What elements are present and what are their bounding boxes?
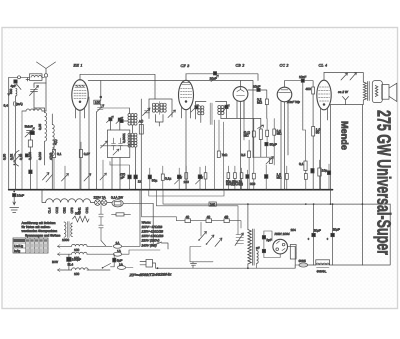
svg-text:GW5: GW5 [299,259,306,263]
svg-text:nF: nF [256,246,260,250]
wire barretter to switch [123,203,153,245]
blob pair top [109,118,112,121]
wire y118.5 [221,118,261,120]
wire nested L C [163,190,209,204]
wire bus end down [330,190,332,204]
svg-text:104: 104 [291,228,297,232]
junction dots rail 203 [305,203,307,205]
filter choke [308,264,316,266]
svg-text:100: 100 [74,248,80,252]
svg-text:50: 50 [316,131,320,135]
wire CF3 top rail [186,74,258,81]
svg-text:CL4: CL4 [47,207,51,213]
svg-text:CC2: CC2 [55,207,59,214]
wire vertical x219 [218,120,220,151]
svg-text:RGN 1064: RGN 1064 [275,232,290,236]
svg-text:EL4: EL4 [68,262,74,266]
tube data table [13,238,48,253]
svg-text:MΩ: MΩ [257,101,263,105]
padder blob [30,131,35,134]
svg-text:20µF: 20µF [314,229,321,233]
svg-text:150V~130Ω/2B: 150V~130Ω/2B [142,234,165,238]
svg-text:10µ: 10µ [322,169,328,173]
sub box oscillator unit [107,130,129,158]
speaker magnet box [382,85,389,100]
svg-text:10µF: 10µF [253,85,260,89]
wire rectifier right [288,246,296,268]
svg-text:CL 4: CL 4 [319,64,328,68]
transformer small bottom-left [64,222,66,237]
resistor oval 1A a [113,244,121,248]
trimmer arrow x87 [84,174,91,182]
resistor horizontal mid [116,213,124,216]
wire nested U A [149,190,224,196]
svg-text:Werte:: Werte: [142,220,151,224]
T2 winding right [218,106,221,109]
speaker cone [389,83,397,101]
blob left of L2 [120,119,123,122]
resistor oval 1A b [113,252,121,256]
svg-text:0,1A 2W: 0,1A 2W [111,195,123,199]
T1 core [158,102,160,115]
svg-text:10nF: 10nF [299,75,306,79]
svg-text:Mende: Mende [339,121,350,150]
CF3 drops [185,110,187,190]
svg-text:EH 1: EH 1 [73,64,83,68]
resistor x306 [304,174,307,180]
capacitor blob x200 with arrow [198,175,202,179]
svg-text:009: 009 [250,182,256,186]
svg-text:CF 3: CF 3 [181,64,190,68]
T1 trimmer left [143,108,151,116]
wire top rail [88,81,253,158]
svg-text:CF3: CF3 [70,207,74,213]
svg-text:B/W: B/W [52,260,58,264]
CB2 drops [240,101,242,189]
blob x329 [327,171,330,175]
mains switch blade [153,242,168,249]
blob+box x247/253 [246,175,249,179]
speaker rounded box [372,81,382,103]
svg-text:0,05: 0,05 [38,124,42,130]
trimmer cap osc [25,128,35,138]
svg-text:4µF: 4µF [11,84,17,88]
output transformer primary [363,82,366,100]
barretter oval [107,202,112,204]
svg-text:2µF: 2µF [266,238,272,242]
heater line 3 [58,269,111,271]
CL4 drops [321,109,328,190]
trimmer arrow x65 [62,174,69,182]
coil L2 [128,114,131,117]
svg-text:ca 2 W: ca 2 W [338,90,349,94]
svg-text:220V 2A: 220V 2A [94,195,107,199]
T1 winding left [152,103,155,106]
svg-text:0,0001: 0,0001 [122,133,126,143]
svg-text:7kΩ: 7kΩ [222,153,228,157]
wire antenna down [45,77,47,111]
resistor 100 [94,100,100,104]
blob x30 [29,170,32,174]
resistor oval 1A c [117,266,125,270]
chassis bus [9,189,333,191]
wire osc top [34,108,45,165]
heater line 2 [58,253,114,255]
trimmers inside box [101,141,108,148]
electrode arrows [341,73,348,80]
svg-text:AÜ: AÜ [139,120,144,124]
capacitor blob x179 with arrow [177,175,181,179]
svg-text:MΩ: MΩ [244,133,250,137]
power transformer winding [248,230,251,265]
svg-text:0,100: 0,100 [28,152,32,160]
IF transformer T1 frame [149,99,172,119]
svg-text:0,5: 0,5 [241,153,246,157]
dial lamp 1 [91,202,95,204]
wire mid horizontal [101,145,130,147]
T1 winding right [160,103,163,106]
mains switch fan [200,232,207,240]
svg-text:0,07: 0,07 [84,152,90,156]
band switch line [42,190,46,203]
resistor 1.0 on CL4 line [312,127,315,137]
svg-text:0,1µ: 0,1µ [165,177,171,181]
coil input horizontal [22,110,26,112]
bottom rail y268 [156,267,296,269]
wire CC2 top [285,80,303,82]
svg-text:µF: µF [121,175,125,179]
wire antenna to coil [21,76,45,78]
svg-text:100µF: 100µF [72,257,81,261]
T2 winding left [198,106,201,109]
capacitor blob x150 [148,175,151,179]
svg-text:+: + [327,237,329,241]
mains plug connector [146,260,153,268]
trimmer arrow [97,105,105,113]
wire transformer bottom [331,100,364,105]
svg-text:100: 100 [74,272,80,276]
svg-text:125V~110Ω/2B: 125V~110Ω/2B [142,230,164,234]
resistor box x186 [185,173,188,179]
band switch contact arc [14,151,19,167]
resistor box x267 [266,130,269,136]
svg-text:110V~ 97Ω/2B: 110V~ 97Ω/2B [142,225,164,229]
blob x26 [25,154,28,157]
wire vertical x141 [140,99,142,190]
coil L3 [128,133,131,136]
phone jack Y [343,97,349,105]
ground symbol [13,197,16,205]
transformer core [368,82,370,101]
svg-text:CC 2: CC 2 [280,64,289,68]
T2 drops [201,115,221,123]
svg-text:1000: 1000 [62,238,69,242]
IF transformer T2 frames [196,102,227,120]
blob x313 [311,169,314,174]
svg-text:6,4: 6,4 [4,104,9,108]
wire right rail x362 [361,105,363,265]
svg-text:+: + [308,237,310,241]
svg-text:MΩ: MΩ [277,132,283,136]
svg-text:Ua/Ug: Ua/Ug [14,244,23,248]
resistor 0.5M [248,151,251,158]
capacitor 4uF blob [14,80,17,83]
svg-text:0,1: 0,1 [299,162,304,166]
svg-text:50µ: 50µ [152,179,158,183]
capacitor 50uF blob [265,142,268,145]
blob 6uF [113,258,116,262]
capacitor 100uF heater [67,257,72,261]
band switch arc chain [46,199,91,203]
resistor box x81 [79,150,82,158]
svg-text:0,02: 0,02 [10,154,14,160]
switch contact [17,78,30,90]
svg-text:40: 40 [207,215,211,219]
svg-text:10nF: 10nF [17,194,24,198]
svg-text:(mA): (mA) [16,102,23,106]
svg-text:MΩ: MΩ [277,175,283,179]
svg-text:ΦWΦL: ΦWΦL [317,270,327,274]
box 4uF right of rectifier [290,245,296,260]
resistor 7k [217,151,220,158]
resistor box x205.5 [204,173,207,179]
trimmer capacitor ant [31,83,47,110]
resistor boxes x228/235/241.5 [227,173,230,179]
wire CL4 cathode bottom [330,105,332,190]
T2 trimmer arrows [191,105,199,113]
drops from box [112,158,120,190]
svg-text:40: 40 [186,215,190,219]
capacitor blob x135 [134,175,138,179]
svg-text:100: 100 [184,180,190,184]
wire rectifier bottom [264,254,280,258]
CC2 drops [284,102,286,190]
wire tap to rail [190,247,213,262]
svg-text:0,50: 0,50 [3,154,7,160]
svg-text:Ia/Ig: Ia/Ig [14,249,20,253]
svg-text:400: 400 [306,87,312,91]
svg-text:MΩ(k)1,0(k): MΩ(k)1,0(k) [226,182,243,186]
wire nested L B [156,190,238,235]
switch arrow mid [253,156,273,158]
svg-text:0,1: 0,1 [57,152,62,156]
antenna [37,62,56,73]
svg-text:220V (220V): 220V (220V) [141,239,160,243]
transformer core lines [252,229,254,265]
capacitor 10nF at CF3 [213,72,216,75]
resistor x287 with label 1.0M [285,174,288,180]
oscillator coil [45,113,47,142]
T2 blobs [195,106,198,109]
wire long rail y204 [216,203,390,205]
wire vertical x214 [214,120,216,190]
antenna coil L-ant [30,74,43,81]
blob x266 [265,175,268,179]
wire verticals mid-left [89,97,97,190]
wire right rail x390 [362,204,390,265]
T1 trimmer right [168,110,176,118]
dial lamp 2 [101,200,107,206]
svg-text:005: 005 [75,212,81,216]
svg-text:1k: 1k [138,180,142,184]
wire y220.7 with two resistors [142,190,241,228]
resistor zigzag bl [73,216,90,222]
T2 core [210,103,212,125]
svg-text:20µF: 20µF [333,228,340,232]
volume potentiometer [260,119,262,130]
svg-text:40: 40 [224,215,228,219]
wire fan feed [200,222,202,236]
wire vertical x22 [21,111,23,190]
capacitor mains [191,262,197,268]
box x319.5 [318,168,321,176]
heater line 1 [58,245,113,247]
svg-text:CB 2: CB 2 [236,64,245,68]
transformer tap contacts [236,235,244,244]
svg-text:50µF: 50µF [270,142,277,146]
terminal circle [18,76,21,79]
svg-text:CB2: CB2 [62,207,66,213]
EH1 drop wires [79,110,81,189]
switch heater [103,264,114,268]
svg-text:0,010: 0,010 [38,152,42,160]
capacitor 10nF ground [13,191,15,193]
resistor 0.2M [265,99,268,105]
resistor box x305.5 [304,161,307,171]
fuse GW5 [295,264,299,266]
resistor 0.1M x274 [273,129,276,135]
wire L2-L3 verticals [129,108,135,190]
resistor box x54 [52,150,55,158]
rectifier caps [262,236,265,240]
svg-text:240: 240 [210,202,216,206]
resistor 400 at CL4 grid [312,87,315,94]
svg-text:CH1: CH1 [85,207,89,214]
resistor box left [28,140,32,147]
secondary coil [257,251,259,264]
T1 drops [155,115,163,127]
svg-text:500: 500 [9,88,13,94]
wire coil down [15,96,17,190]
resistor 240 [209,202,216,206]
svg-text:100: 100 [95,100,101,104]
resistor box x163 [161,174,164,180]
coil 500 [16,88,17,96]
wire vertical x37 [36,160,38,190]
wire vertical x223 [222,122,224,190]
wire CL4 anode top [324,73,363,83]
meter arrow [8,93,10,96]
svg-text:Spannungen und Ströme: Spannungen und Ströme [25,233,61,237]
left rail wire [9,77,18,189]
switch arrows left B/W [43,173,50,181]
speaker secondary winding [375,86,378,97]
svg-text:3MnF: 3MnF [25,125,33,129]
wire drop x103 with switch [102,160,104,190]
lamp drop with caps [100,205,102,240]
coupling coil right [52,125,54,156]
